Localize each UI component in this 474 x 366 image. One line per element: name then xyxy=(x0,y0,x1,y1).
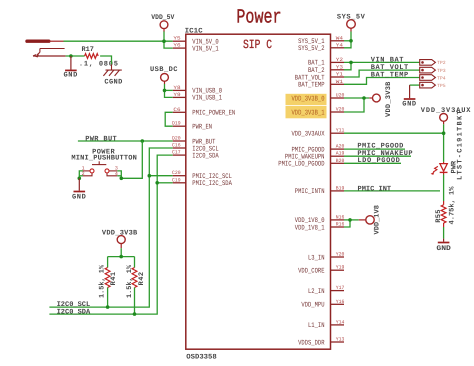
svg-text:C20: C20 xyxy=(172,170,181,176)
wire SYS_5V to W4 Y4 xyxy=(344,32,351,48)
supply VDD_3V3B (pull-up rail) xyxy=(117,236,125,244)
wire I2C0_SCL net xyxy=(49,148,172,307)
svg-text:D20: D20 xyxy=(172,136,181,142)
svg-text:.1, 0805: .1, 0805 xyxy=(79,60,119,68)
svg-text:Y1: Y1 xyxy=(336,72,343,78)
test point TP3 xyxy=(420,67,436,73)
wire 5V rail from connector to VDD_5V junction and pin Y5 xyxy=(64,40,173,42)
pin C17 I2C0_SDA xyxy=(173,154,187,156)
wire N16 R16 tie to VDD_1V8 xyxy=(344,219,359,221)
svg-text:R41: R41 xyxy=(110,271,118,285)
svg-text:PMIC_INT: PMIC_INT xyxy=(358,185,392,193)
wire BAT_VOLT net Y1 to TP3 xyxy=(344,70,420,77)
wire PMIC_PGOOD net xyxy=(344,148,405,150)
pin Y13 VDDS_DDR xyxy=(331,341,345,343)
svg-text:LDO_PGOOD: LDO_PGOOD xyxy=(357,157,400,165)
svg-text:SYS_5V_2: SYS_5V_2 xyxy=(298,45,324,53)
svg-text:TP3: TP3 xyxy=(437,68,446,74)
junction at VDD_5V rail xyxy=(162,39,166,43)
svg-text:Y8: Y8 xyxy=(173,85,180,91)
test point TP4 xyxy=(420,75,436,81)
svg-text:Y6: Y6 xyxy=(173,43,180,49)
svg-text:PMIC_LDO_PGOOD: PMIC_LDO_PGOOD xyxy=(278,161,324,169)
connector switch hook arrow xyxy=(37,49,65,56)
wire VIN_BAT net Y2+Y3 to TP2 xyxy=(344,61,420,63)
wire pushbutton left pins tie xyxy=(79,171,83,178)
supply VDD_1V8 xyxy=(359,219,366,221)
svg-text:W1: W1 xyxy=(336,79,343,85)
svg-text:GND: GND xyxy=(72,194,86,202)
svg-text:VDD_3V3B: VDD_3V3B xyxy=(102,230,138,238)
ground GND (R55) xyxy=(443,239,445,242)
svg-text:Power: Power xyxy=(236,6,281,29)
svg-text:VDD_5V: VDD_5V xyxy=(151,14,175,22)
pin Y19 VDD_CORE xyxy=(331,269,345,271)
svg-text:VDD_3V3AUX: VDD_3V3AUX xyxy=(292,131,326,139)
pin D20 PWR_BUT xyxy=(173,140,187,142)
svg-text:VDD_3V3B_1: VDD_3V3B_1 xyxy=(292,109,325,117)
pin A19 PMIC_WAKEUPN xyxy=(331,155,345,157)
svg-text:4.75k, 1%: 4.75k, 1% xyxy=(448,186,457,225)
pin Y8 VIN_USB_0 xyxy=(173,89,187,91)
wire USB_DC to pins Y8 Y9 xyxy=(165,84,173,97)
pin B19 PMIC_INTN xyxy=(331,190,345,192)
pin C6 PMIC_POWER_EN xyxy=(173,111,187,113)
svg-text:PWR_EN: PWR_EN xyxy=(192,124,212,132)
pin Y20 L3_IN xyxy=(331,256,345,258)
wire LED to R55 xyxy=(443,172,445,174)
wire U20 V20 tie to VDD_3V3B xyxy=(344,97,369,99)
svg-text:PWR_BUT: PWR_BUT xyxy=(85,136,117,144)
wire PWR_BUT net xyxy=(78,140,173,142)
wire TP5 to ground xyxy=(410,84,420,86)
svg-text:USB_DC: USB_DC xyxy=(150,66,178,74)
svg-text:I2C0_SDA: I2C0_SDA xyxy=(57,309,91,317)
wire VDD_5V drop to Y6 xyxy=(164,31,173,48)
svg-text:U20: U20 xyxy=(336,93,345,99)
svg-text:GND: GND xyxy=(402,101,416,109)
svg-text:Y9: Y9 xyxy=(173,92,180,98)
pin C20 PMIC_I2C_SCL xyxy=(173,175,187,177)
supply SYS_5V xyxy=(347,20,356,29)
svg-text:Y16: Y16 xyxy=(336,299,345,305)
pin Y3 BAT_2 xyxy=(331,69,345,71)
highlight box VDD_3V3B_1 xyxy=(286,106,327,118)
wire PMIC_INT net xyxy=(344,190,440,192)
connector pin lead (row 2) xyxy=(33,55,66,57)
supply VDD_3V3B (right) xyxy=(369,97,372,99)
junction PWR_BUT xyxy=(141,139,145,143)
svg-text:Y14: Y14 xyxy=(336,319,345,325)
svg-text:C17: C17 xyxy=(172,150,181,156)
wire R42 to I2C0_SDA xyxy=(134,288,136,315)
pushbutton pin 1 lead xyxy=(83,170,90,172)
resistor R41 xyxy=(105,268,110,288)
svg-text:BAT_TEMP: BAT_TEMP xyxy=(298,82,324,90)
wire branch to C19 xyxy=(157,182,173,184)
svg-text:A20: A20 xyxy=(336,144,345,150)
svg-text:VDD_1V8_1: VDD_1V8_1 xyxy=(295,224,325,232)
svg-text:V20: V20 xyxy=(336,107,345,113)
pin Y4 SYS_5V_2 xyxy=(331,47,345,49)
svg-text:Y13: Y13 xyxy=(336,337,345,343)
pin Y5 VIN_5V_0 xyxy=(173,40,187,42)
wire PMIC_NWAKEUP net xyxy=(344,155,411,157)
svg-text:VDD_MPU: VDD_MPU xyxy=(301,302,324,310)
pin Y17 L2_IN xyxy=(331,290,345,292)
wire branch to C20 xyxy=(149,175,173,177)
wire R55 to ground xyxy=(443,223,445,227)
svg-text:C6: C6 xyxy=(173,107,180,113)
svg-text:OSD3358: OSD3358 xyxy=(186,353,216,361)
pushbutton contact circles xyxy=(90,169,94,173)
pin Y16 VDD_MPU xyxy=(331,303,345,305)
svg-text:VDD_CORE: VDD_CORE xyxy=(298,268,324,276)
pin A20 PMIC_PGOOD xyxy=(331,148,345,150)
resistor R42 xyxy=(132,268,137,288)
junction USB_DC at Y8 xyxy=(163,89,167,93)
wire R17 to CGND xyxy=(100,56,111,64)
test point TP5 xyxy=(420,82,436,88)
svg-text:BAT_TEMP: BAT_TEMP xyxy=(371,72,409,80)
pin V20 VDD_3V3B_1 xyxy=(331,111,345,113)
svg-text:B20: B20 xyxy=(336,158,345,164)
pin R16 VDD_1V8_1 xyxy=(331,226,345,228)
svg-text:1.5k, 1%: 1.5k, 1% xyxy=(98,264,107,298)
wire rail to R41 R42 xyxy=(120,248,122,256)
svg-text:R42: R42 xyxy=(138,271,146,285)
ground GND (TP5) xyxy=(409,85,411,98)
resistor R55 xyxy=(441,205,446,223)
svg-text:W4: W4 xyxy=(336,35,343,41)
svg-text:C19: C19 xyxy=(172,177,181,183)
svg-text:VIN_5V_1: VIN_5V_1 xyxy=(192,45,218,53)
pin U20 VDD_3V3B_0 xyxy=(331,97,345,99)
svg-text:VDD_3V3B_0: VDD_3V3B_0 xyxy=(292,95,325,103)
svg-text:Y2: Y2 xyxy=(336,57,343,63)
pin Y9 VIN_USB_1 xyxy=(173,96,187,98)
pin Y6 VIN_5V_1 xyxy=(173,47,187,49)
svg-text:Y4: Y4 xyxy=(336,42,343,48)
svg-text:TP2: TP2 xyxy=(437,60,446,66)
wire R41 to I2C0_SCL xyxy=(107,288,109,308)
svg-text:Y20: Y20 xyxy=(336,252,345,258)
pin Y1 BATT_VOLT xyxy=(331,76,345,78)
pushbutton pin 2 lead xyxy=(83,173,92,176)
svg-text:GND: GND xyxy=(64,72,78,80)
wire LDO_PGOOD net xyxy=(344,162,401,164)
svg-text:Y5: Y5 xyxy=(173,36,180,42)
svg-text:PMIC_I2C_SDA: PMIC_I2C_SDA xyxy=(192,180,232,188)
pin B20 PMIC_LDO_PGOOD xyxy=(331,162,345,164)
IC U1 OSD3358 SIP body xyxy=(186,34,331,349)
wire GND net segment xyxy=(66,55,85,57)
pushbutton pin 4 lead xyxy=(107,173,117,176)
junction at GND wire xyxy=(69,54,73,58)
chassis ground CGND xyxy=(103,64,121,76)
svg-text:I2C0_SDA: I2C0_SDA xyxy=(192,152,219,160)
svg-text:D19: D19 xyxy=(172,121,181,127)
svg-text:L1_IN: L1_IN xyxy=(308,322,325,330)
svg-text:SYS_5V: SYS_5V xyxy=(337,14,366,22)
highlight box VDD_3V3B_0 xyxy=(286,94,327,105)
pushbutton pin 3 lead xyxy=(109,170,117,172)
pin Y11 VDD_3V3AUX xyxy=(331,132,345,134)
svg-text:LTST-C191TBKT: LTST-C191TBKT xyxy=(456,109,464,180)
svg-text:N16: N16 xyxy=(336,214,345,220)
pushbutton actuator xyxy=(92,164,106,166)
svg-text:B19: B19 xyxy=(336,185,345,191)
pin D19 PWR_EN xyxy=(173,125,187,127)
wire BAT_TEMP net W1 to TP4 xyxy=(344,78,420,85)
ground GND (left) xyxy=(70,56,72,70)
svg-text:TP4: TP4 xyxy=(437,75,446,81)
svg-text:TP5: TP5 xyxy=(437,83,446,89)
pin C16 I2C0_SCL xyxy=(173,147,187,149)
svg-text:L3_IN: L3_IN xyxy=(308,254,325,262)
svg-text:R17: R17 xyxy=(82,46,94,54)
svg-text:C16: C16 xyxy=(172,143,181,149)
svg-text:VDDS_DDR: VDDS_DDR xyxy=(298,339,325,347)
svg-text:Y11: Y11 xyxy=(336,128,345,134)
pin W4 SYS_5V_1 xyxy=(331,40,345,42)
svg-text:A19: A19 xyxy=(336,151,345,157)
svg-text:VDD_3V3B: VDD_3V3B xyxy=(385,81,393,117)
wire pushbutton right pins tie to PWR_BUT xyxy=(117,141,142,178)
supply USB_DC xyxy=(161,74,169,82)
supply VDD_5V xyxy=(160,21,168,29)
svg-text:Y19: Y19 xyxy=(336,265,345,271)
svg-text:PMIC_POWER_EN: PMIC_POWER_EN xyxy=(192,110,235,118)
wire I2C0_SDA net xyxy=(49,155,172,314)
wire VDD_3V3AUX to Y11 and LED xyxy=(344,132,444,134)
svg-text:CGND: CGND xyxy=(104,78,122,86)
svg-text:Y17: Y17 xyxy=(336,285,345,291)
test point TP2 xyxy=(420,60,436,66)
svg-text:GND: GND xyxy=(436,245,451,253)
svg-text:VDD_1V8: VDD_1V8 xyxy=(374,205,382,234)
pin N16 VDD_1V8_0 xyxy=(331,219,345,221)
svg-text:R16: R16 xyxy=(336,222,345,228)
svg-text:VIN_USB_1: VIN_USB_1 xyxy=(192,95,222,103)
resistor R17 xyxy=(85,54,99,59)
svg-text:PMIC_INTN: PMIC_INTN xyxy=(295,188,325,196)
LED D1 PWR LTST-C191TBKT xyxy=(443,162,445,164)
svg-text:SIP C: SIP C xyxy=(243,38,272,52)
connector shield bar (left edge) xyxy=(27,40,49,43)
svg-text:L2_IN: L2_IN xyxy=(308,288,325,296)
wire tie C6 to D19 xyxy=(165,112,173,126)
pin W1 BAT_TEMP xyxy=(331,83,345,85)
pin Y14 L1_IN xyxy=(331,324,345,326)
ground GND (pushbutton) xyxy=(78,178,80,190)
svg-text:MINI_PUSHBUTTON: MINI_PUSHBUTTON xyxy=(71,155,137,163)
svg-text:1.5k, 1%: 1.5k, 1% xyxy=(125,264,134,298)
svg-text:R55: R55 xyxy=(435,209,443,223)
svg-text:Y3: Y3 xyxy=(336,64,343,70)
pin C19 PMIC_I2C_SDA xyxy=(173,182,187,184)
pin Y2 BAT_1 xyxy=(331,61,345,63)
